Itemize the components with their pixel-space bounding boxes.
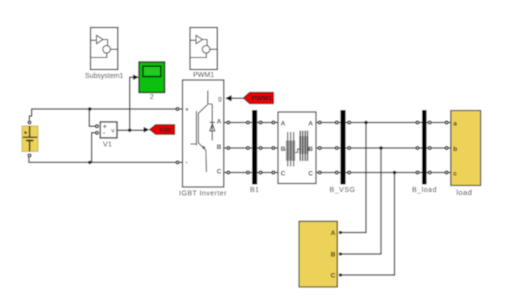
- svg-text:V1: V1: [103, 139, 112, 148]
- wire row B transformer to B_VSG: [316, 147, 340, 149]
- port circle B1 right A: [259, 121, 262, 124]
- port circle inverter minus: [176, 161, 179, 164]
- junction dot tap B: [379, 146, 382, 149]
- port dot VSG B: [339, 252, 342, 255]
- wire row B inverter to B1: [224, 147, 252, 149]
- svg-text:-: -: [185, 160, 187, 167]
- port circle B1 right B: [259, 147, 262, 150]
- port circle B_VSG left C: [335, 171, 338, 174]
- wire row B B_VSG to B_load: [346, 147, 422, 149]
- svg-text:A: A: [217, 119, 222, 126]
- svg-text:PWM1: PWM1: [193, 72, 214, 79]
- svg-text:+: +: [185, 106, 189, 113]
- port circle transformer out B: [318, 147, 321, 150]
- svg-text:C: C: [281, 171, 286, 178]
- svg-text:a: a: [453, 120, 457, 127]
- wire V1 output to Vdc tag: [117, 129, 144, 131]
- svg-text:2: 2: [150, 92, 154, 101]
- wire top DC bus: [29, 109, 176, 120]
- label B1: [250, 185, 259, 194]
- label 2: [150, 92, 154, 101]
- label PWM1: [193, 72, 214, 79]
- wire tap A down to VSG block: [342, 123, 367, 233]
- port circle B_VSG right C: [348, 171, 351, 174]
- bus bar B_load: [422, 110, 427, 185]
- port circle transformer in A: [272, 121, 275, 124]
- svg-text:PWM1: PWM1: [251, 96, 272, 103]
- label IGBT Inverter: [179, 191, 227, 198]
- port circle B_VSG left B: [335, 147, 338, 150]
- port circle transformer out A: [318, 121, 321, 124]
- subsystem Subsystem1: [91, 28, 118, 70]
- port dot VSG A: [339, 231, 342, 234]
- label B_VSG: [329, 187, 355, 194]
- label load: [456, 188, 472, 197]
- svg-text:B_VSG: B_VSG: [329, 187, 355, 194]
- svg-text:Subsystem1: Subsystem1: [85, 73, 124, 80]
- port circle load a: [445, 121, 448, 124]
- load block: [451, 111, 481, 186]
- wire tap C down to VSG block: [342, 173, 395, 276]
- from tag PWM1: [243, 92, 273, 103]
- svg-text:A: A: [281, 121, 286, 128]
- port circle inverter A: [227, 121, 230, 124]
- port circle load b: [445, 147, 448, 150]
- svg-text:B: B: [331, 252, 336, 259]
- bus bar B_VSG: [340, 110, 345, 185]
- wire PWM1 tag to g port: [232, 97, 244, 99]
- wire row C B_load to load: [426, 172, 450, 174]
- wire stub top bus to inverter +: [179, 108, 183, 110]
- label Subsystem1: [85, 73, 124, 80]
- winding icon: [286, 141, 295, 161]
- arrowhead into g port: [225, 95, 231, 101]
- port circle B_VSG left A: [335, 121, 338, 124]
- svg-text:b: b: [453, 146, 457, 153]
- IGBT inverter block: [183, 80, 224, 187]
- svg-text:B_load: B_load: [412, 187, 437, 194]
- wire branch to V1 plus: [89, 109, 95, 126]
- svg-text:IGBT Inverter: IGBT Inverter: [179, 191, 227, 198]
- port dot VSG C: [339, 273, 342, 276]
- bus bar B1: [252, 110, 257, 185]
- wire bottom DC bus: [29, 157, 176, 162]
- wire row C inverter to B1: [224, 172, 252, 174]
- wire row B B_load to load: [426, 147, 450, 149]
- voltage measurement V1: [100, 122, 117, 138]
- wire V1 output to scope 2: [130, 77, 134, 130]
- port circle transformer out C: [318, 171, 321, 174]
- port circle B_load right A: [428, 121, 431, 124]
- arrowhead into Vdc tag: [144, 127, 150, 133]
- svg-text:A: A: [308, 121, 313, 128]
- port circle B1 right C: [259, 171, 262, 174]
- port circle V1 plus: [96, 125, 99, 128]
- port circle B1 left C: [247, 171, 250, 174]
- wire row A B1 to transformer: [257, 122, 278, 124]
- scope block 2: [139, 62, 165, 93]
- junction dot tap C: [393, 171, 396, 174]
- wire row C B_VSG to B_load: [346, 172, 422, 174]
- svg-text:C: C: [331, 273, 336, 280]
- wire row A B_load to load: [426, 122, 450, 124]
- port circle inverter plus: [176, 108, 179, 111]
- port circle B_VSG right A: [348, 121, 351, 124]
- port circle B_load right B: [428, 147, 431, 150]
- svg-text:load: load: [456, 188, 472, 197]
- wire row C B1 to transformer: [257, 172, 278, 174]
- wire stub bottom bus to inverter -: [179, 161, 183, 163]
- port circle transformer in C: [272, 171, 275, 174]
- IGBT symbol: [191, 91, 213, 173]
- port circle battery top: [28, 121, 31, 124]
- diode symbol: [210, 104, 215, 141]
- svg-text:B1: B1: [250, 185, 259, 194]
- port circle B1 left B: [247, 147, 250, 150]
- wire row A B_VSG to B_load: [346, 122, 422, 124]
- wire row A inverter to B1: [224, 122, 252, 124]
- svg-text:g: g: [218, 96, 222, 103]
- port circle battery bottom: [28, 154, 31, 157]
- svg-text:C: C: [308, 171, 313, 178]
- wire branch from V1 minus: [92, 133, 95, 163]
- svg-text:A: A: [331, 230, 336, 237]
- port circle V1 minus: [96, 131, 99, 134]
- port circle B_load left C: [416, 171, 419, 174]
- battery DC voltage source: [22, 126, 38, 152]
- label B_load: [412, 187, 437, 194]
- port circle transformer in B: [272, 147, 275, 150]
- svg-text:Vdc: Vdc: [159, 127, 172, 134]
- svg-text:c: c: [453, 170, 457, 177]
- port circle B1 left A: [247, 121, 250, 124]
- port circle inverter C: [227, 171, 230, 174]
- junction dot bottom bus: [88, 161, 91, 164]
- port circle B_VSG right B: [348, 147, 351, 150]
- port circle B_load left A: [416, 121, 419, 124]
- goto tag Vdc: [150, 125, 175, 134]
- junction dot top bus: [88, 107, 91, 110]
- wire row B B1 to transformer: [257, 147, 278, 149]
- VSG measurement block: [299, 221, 337, 287]
- svg-text:-: -: [103, 130, 105, 137]
- svg-text:B: B: [281, 146, 286, 153]
- subsystem PWM1: [190, 28, 217, 70]
- wire row A transformer to B_VSG: [316, 122, 340, 124]
- port circle load c: [445, 171, 448, 174]
- port circle inverter B: [227, 147, 230, 150]
- wire row C transformer to B_VSG: [316, 172, 340, 174]
- port circle B_load right C: [428, 171, 431, 174]
- wire tap B down to VSG block: [342, 148, 382, 254]
- junction dot V1 output: [128, 129, 131, 132]
- svg-text:C: C: [217, 169, 222, 176]
- label V1: [103, 139, 112, 148]
- three-phase transformer block: [278, 112, 316, 184]
- svg-text:B: B: [217, 144, 222, 151]
- junction dot tap A: [364, 121, 367, 124]
- port circle B_load left B: [416, 147, 419, 150]
- arrowhead into scope 2: [133, 74, 139, 80]
